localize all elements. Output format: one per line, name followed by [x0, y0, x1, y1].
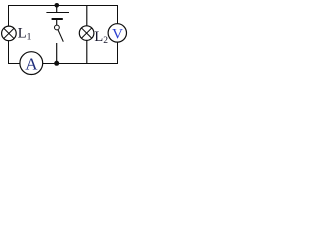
svg-text:L1: L1	[18, 25, 32, 42]
svg-text:V: V	[112, 27, 123, 43]
svg-text:A: A	[25, 55, 38, 74]
svg-text:L2: L2	[94, 29, 108, 46]
